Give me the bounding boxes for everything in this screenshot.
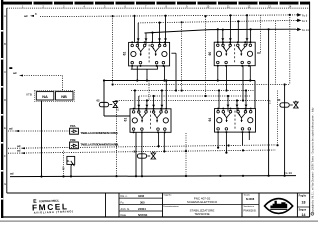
coil EV62 xyxy=(99,100,117,108)
node dot M1 x250.3 xyxy=(249,79,251,81)
svg-text:XTB: XTB xyxy=(26,93,32,97)
arrow riser A2 xyxy=(137,38,140,41)
drop C1 x136 xyxy=(135,132,137,176)
XTB cell A xyxy=(36,92,54,100)
top margin bar tick gaps xyxy=(32,2,34,5)
node dot bus N1 / riser x247 xyxy=(246,14,248,16)
stub block A right terminal xyxy=(171,52,176,54)
title divider x242 xyxy=(241,193,243,217)
relay contact block 64 (bottom-right) xyxy=(215,108,256,134)
riser B1 x217.8 xyxy=(217,29,219,42)
svg-text:5/07/94: 5/07/94 xyxy=(138,213,148,217)
dotted drop x149 xyxy=(148,81,150,101)
coil 62 branch to block C y116 xyxy=(104,115,130,117)
svg-text:RI: RI xyxy=(278,98,281,102)
IL switch arm xyxy=(71,161,75,166)
svg-text:Segue: Segue xyxy=(299,208,307,211)
riser C5 x161.9 xyxy=(161,91,163,112)
feeder wire y75.5 to XTB (dotted) xyxy=(22,75,63,77)
svg-text:Copyright by I.M.E.L. srl Via: Copyright by I.M.E.L. srl Via Giovanni -… xyxy=(312,107,315,214)
drop D1 x218.1 xyxy=(217,132,219,148)
svg-text:Fo 14: Fo 14 xyxy=(284,171,292,175)
riser C6 x166.3 xyxy=(165,81,167,109)
node dot bottom bus x284.6 xyxy=(284,175,286,177)
svg-text:B: B xyxy=(134,150,136,154)
riser C3 x146.9 xyxy=(146,101,148,112)
riser B5 x247 xyxy=(246,15,248,45)
riser B3 x230.4 xyxy=(229,15,231,45)
node dot bottom bus x243 xyxy=(242,175,244,177)
feeder corner down x62.5 (dotted) xyxy=(62,76,64,91)
relay contact block 62 (top-left) xyxy=(129,41,170,67)
svg-text:ad: ad xyxy=(24,14,28,18)
svg-text:Fo.: Fo. xyxy=(121,201,125,204)
middle divider row y204.4 xyxy=(163,203,243,205)
approval stamp mark xyxy=(32,197,74,214)
drop B2 x226.5 xyxy=(226,66,228,91)
svg-text:ad: ad xyxy=(9,126,13,130)
right dotted vertical x260.6 xyxy=(260,15,262,53)
riser A5 x159.5 xyxy=(159,23,161,46)
arrow riser D4 xyxy=(245,105,248,108)
net bus M2 y84.5 (dotted) xyxy=(113,84,290,86)
drop C4 x164.3 xyxy=(163,132,165,152)
bus N2 right arrow + label Fo.9 xyxy=(296,19,301,21)
bottom return bus y176 xyxy=(10,176,296,177)
riser B6 x250.6 xyxy=(250,29,252,42)
node dot bus N2 x238.3 xyxy=(237,20,239,22)
node dot x205.5 y96 xyxy=(204,95,206,97)
svg-text:18: 18 xyxy=(302,200,306,204)
riser A1 x134.5 xyxy=(134,16,136,43)
node dot X3 x237 xyxy=(236,99,238,101)
svg-text:3402: 3402 xyxy=(138,194,145,198)
node dot x176 y90.5 xyxy=(175,89,177,91)
node dot X1 x226.5 xyxy=(225,89,227,91)
svg-text:ad: ad xyxy=(10,172,14,176)
right dotted corner x270 xyxy=(269,101,271,105)
riser D2 x228 xyxy=(227,96,229,112)
node dot bottom bus x136 xyxy=(135,175,137,177)
table row line y211 xyxy=(119,210,163,212)
arrow riser C5 xyxy=(161,105,164,108)
node dot L1 x158.6 xyxy=(158,145,160,147)
inner frame left rule xyxy=(6,8,8,193)
right col divider y207 xyxy=(297,206,309,208)
corner drop x255 to block D xyxy=(254,81,256,109)
svg-text:NA: NA xyxy=(42,94,48,99)
arrow riser B2 xyxy=(221,38,224,41)
node dot bus N1 / riser x134.5 xyxy=(133,15,135,17)
mid dotted vertical x181.6 xyxy=(181,22,183,90)
node dot X3 x146.9 xyxy=(146,99,148,101)
node dot bus N3 x222.8 xyxy=(222,29,224,31)
right dotted vertical x275.6 xyxy=(275,21,277,85)
copyright symbol xyxy=(311,212,314,215)
right vertical x284.6 through coil RI xyxy=(284,85,286,176)
svg-text:PN40028 B.: PN40028 B. xyxy=(244,209,257,212)
drop A2 x157.5 xyxy=(157,66,159,69)
arrow riser D2 xyxy=(227,105,230,108)
svg-text:NB: NB xyxy=(61,94,67,99)
stub block B right terminal xyxy=(257,52,261,54)
XTB drop x41.5 xyxy=(41,101,43,177)
svg-text:61: 61 xyxy=(124,118,128,122)
arrow riser A5 xyxy=(158,38,161,41)
riser D4 x246 xyxy=(245,91,247,112)
node dot bus N1 / riser x165.5 xyxy=(164,15,166,17)
wire stub label on left frame y68 xyxy=(9,67,12,69)
svg-text:64: 64 xyxy=(208,118,212,122)
svg-text:TABELLA ACCENSIONE IN CORSA: TABELLA ACCENSIONE IN CORSA xyxy=(81,131,118,135)
scanner edge band xyxy=(0,220,318,222)
arrow riser C2 xyxy=(137,105,140,108)
svg-text:ad: ad xyxy=(17,149,21,153)
title divider x105.5 xyxy=(105,193,107,217)
svg-text:TABELLA STAZIONAMENTO IN RIM.: TABELLA STAZIONAMENTO IN RIM. xyxy=(81,143,119,147)
riser A6 x165.5 xyxy=(165,16,167,46)
title divider x259 xyxy=(258,193,260,217)
net bus L1 (dotted, sloped) xyxy=(8,145,276,148)
short bus below block A y69.2 xyxy=(131,68,158,70)
left margin bar tick gaps xyxy=(1,30,3,32)
svg-text:Fo 14: Fo 14 xyxy=(302,28,309,32)
arrow riser C3 xyxy=(146,105,149,108)
svg-text:Oggetto: Oggetto xyxy=(164,194,173,197)
title divider x162.5 xyxy=(162,193,164,217)
crossover bus X3 y100.5 (dotted) xyxy=(117,100,271,102)
crossover bus X1 y90.5 (dotted) xyxy=(131,90,255,92)
svg-text:62: 62 xyxy=(123,52,127,56)
svg-text:Data: Data xyxy=(121,214,127,217)
riser N1 right x289.8 (dotted) xyxy=(289,15,291,85)
node dot M1 x164.5 xyxy=(163,79,165,81)
node dot X1 x134.9 xyxy=(134,89,136,91)
solid link y80.5 coil to riser xyxy=(104,80,142,82)
logo locomotive wheels line xyxy=(270,209,287,211)
coil RI xyxy=(280,100,298,108)
node dot bus N3 x152.5 xyxy=(151,31,153,33)
coil RP xyxy=(137,151,155,159)
riser B2 x222.8 xyxy=(222,30,224,45)
title divider x119 xyxy=(118,193,120,217)
node dot bottom bus x142 xyxy=(141,175,143,177)
left margin bar xyxy=(1,0,3,218)
riser B4 x238.3 xyxy=(237,21,239,42)
svg-text:62: 62 xyxy=(97,99,101,103)
IL dotted link from bus L2 xyxy=(63,151,65,177)
svg-text:G: G xyxy=(4,182,6,186)
node dot M1 x137.3 xyxy=(136,79,138,81)
node dot M2 x284.6 xyxy=(284,83,286,85)
svg-text:24004: 24004 xyxy=(138,207,146,211)
svg-text:TENSIONE: TENSIONE xyxy=(194,212,209,216)
svg-text:ad: ad xyxy=(17,144,21,148)
svg-text:A: A xyxy=(4,14,6,18)
node dot X1 x161.9 xyxy=(161,89,163,91)
PRA feed wire y131 (dotted) xyxy=(8,130,70,132)
enclosure dotted vertical x116.5 xyxy=(116,101,118,177)
svg-text:SCHEMA ELETTRICO: SCHEMA ELETTRICO xyxy=(187,200,218,204)
riser C2 x138.8 xyxy=(138,96,140,112)
svg-text:Denominazione: Denominazione xyxy=(164,206,180,208)
svg-text:Sostituisce: Sostituisce xyxy=(244,205,255,208)
svg-text:ad: ad xyxy=(13,71,17,75)
riser C4 x153.6 xyxy=(153,96,155,112)
node dot bottom bus x41.5 xyxy=(40,175,42,177)
node dot bottom bus x63.5 xyxy=(62,175,64,177)
node dot bus N2 x159.5 xyxy=(158,22,160,24)
net link y80.5 (solid) xyxy=(142,80,255,82)
arrow riser A6 xyxy=(164,38,167,41)
relay contact block 61 (bottom-left) xyxy=(130,108,171,134)
table row line y204.4 xyxy=(119,203,163,205)
net bus N2 (dotted) xyxy=(138,20,296,23)
node dot M1 x217.8 xyxy=(217,79,219,81)
svg-text:C: C xyxy=(4,70,6,74)
riser D1 x219 xyxy=(218,91,220,109)
svg-text:D: D xyxy=(4,98,6,102)
svg-text:Dis. n.: Dis. n. xyxy=(121,195,128,198)
drop A1 x132 xyxy=(131,66,133,69)
svg-text:N.4008: N.4008 xyxy=(246,197,255,201)
drop A5 x147 from short bus xyxy=(146,69,148,80)
dotted drop x186 xyxy=(185,133,187,176)
node dot bus N1 / riser x289.8 xyxy=(289,14,291,16)
frame right rule xyxy=(309,2,311,217)
drop D4 x249.3 xyxy=(248,132,250,140)
node dot x181.6 bus N2 xyxy=(181,21,183,23)
svg-text:B: B xyxy=(35,12,37,16)
title divider x297.4 xyxy=(296,193,298,217)
svg-text:Foglio: Foglio xyxy=(299,195,307,198)
node dot bus N1 / riser x112.6 xyxy=(112,15,114,17)
drop A3 x137.3 xyxy=(136,66,138,81)
node dot x205.5 bus N1 xyxy=(204,15,206,17)
drop B3 x243 xyxy=(242,66,244,101)
node dot L1 x228.6 xyxy=(228,144,230,146)
right vertical x268.6 solid xyxy=(268,29,270,175)
inner frame top dotted rule xyxy=(7,7,310,9)
node dot x181.6 y90.5 xyxy=(181,89,183,91)
node dot bottom bus x268.6 xyxy=(268,175,270,177)
pushbutton PRA box xyxy=(70,128,79,134)
top margin bar xyxy=(1,2,310,5)
bus N3 right arrow + label Fo.14 xyxy=(296,28,301,30)
node dot X2 x153.6 xyxy=(153,95,155,97)
drop B4 x250.3 xyxy=(249,66,251,81)
node dot y84.5 x112.6 xyxy=(112,83,114,85)
arrow riser C4 xyxy=(152,105,155,108)
bus N1 right arrow + label Fo.9 xyxy=(296,14,301,16)
relay contact block 60 (top-right) xyxy=(214,41,255,66)
svg-text:PRB: PRB xyxy=(70,138,76,142)
node dot bus N1 / riser x230.4 xyxy=(229,14,231,16)
logo locomotive silhouette xyxy=(270,201,287,209)
node dot L2 x186 xyxy=(185,150,187,152)
svg-text:Arch. fo.: Arch. fo. xyxy=(121,208,131,211)
riser D3 x237 xyxy=(236,101,238,112)
node dot y80.5 x104 xyxy=(103,79,105,81)
XTB cell B xyxy=(56,92,74,100)
svg-text:14: 14 xyxy=(302,213,306,217)
drop D2 x226.4 xyxy=(225,132,227,153)
riser C1 x134.9 xyxy=(134,91,136,109)
mid dotted vertical x205.5 xyxy=(205,17,207,96)
node dot L2 x243 xyxy=(242,149,244,151)
svg-text:E: E xyxy=(4,126,6,130)
svg-text:Tavola: Tavola xyxy=(244,195,251,197)
svg-text:B: B xyxy=(4,42,6,46)
svg-text:305: 305 xyxy=(140,200,145,204)
svg-text:60: 60 xyxy=(208,52,212,56)
node dot bottom bus x116.5 xyxy=(115,175,117,177)
node dot bus N3 x268.6 xyxy=(268,28,270,30)
small col divider y204.4 xyxy=(242,203,259,205)
drop C2 x141.9 coil feed xyxy=(141,132,143,176)
node dot bottom bus x220.4 xyxy=(219,175,221,177)
arrow riser D3 xyxy=(236,105,239,108)
coil feed vertical x104 xyxy=(103,81,105,117)
svg-text:PRA: PRA xyxy=(70,124,76,128)
table row line y198.1 xyxy=(119,197,163,199)
IL drop to bus xyxy=(70,166,72,176)
svg-text:Fo 9: Fo 9 xyxy=(302,19,308,23)
drop C3 x158.6 xyxy=(158,132,160,147)
node dot bottom bus x71 xyxy=(70,175,72,177)
logo lens outline xyxy=(265,199,293,214)
svg-text:Fo 9: Fo 9 xyxy=(302,13,308,17)
riser A2 x138.2 xyxy=(137,23,139,45)
right dotted vertical x277.5 lower xyxy=(277,91,279,146)
node dot L2 x164.3 xyxy=(163,150,165,152)
crossover bus X2 y96 (dotted) xyxy=(139,95,250,97)
drop from A right terminal x176 xyxy=(175,53,177,90)
net bus N1 top (dotted) xyxy=(40,15,296,17)
riser N1-M2 x112.6 (dotted) xyxy=(112,16,114,84)
drop D3 x242.5 xyxy=(242,132,244,145)
arrow riser B3 xyxy=(229,38,232,41)
node dot bus N3 x250.6 xyxy=(250,28,252,30)
terminal block XTB outline (dotted) xyxy=(35,90,75,101)
drop B1 x217.8 xyxy=(217,66,219,81)
riser A3 x146 xyxy=(145,33,147,45)
arrow riser A3 xyxy=(145,38,148,41)
frame bottom rule xyxy=(1,216,310,218)
pushbutton PRB box xyxy=(70,142,79,149)
net bus N3 (solid) xyxy=(145,29,297,33)
riser A4 x152.5 xyxy=(152,33,154,43)
node dot X2 x228 xyxy=(227,95,229,97)
drop A4 x164.5 xyxy=(164,66,166,81)
interlock IL box xyxy=(67,156,75,164)
net bus L2 (dotted, sloped) xyxy=(8,150,276,153)
title block top border xyxy=(7,192,310,194)
arrow riser B5 xyxy=(246,38,249,41)
